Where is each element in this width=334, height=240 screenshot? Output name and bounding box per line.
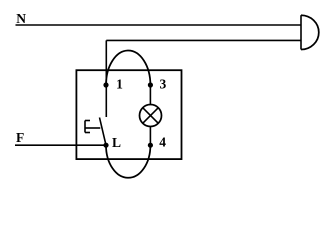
svg-text:N: N bbox=[16, 11, 26, 26]
wire lamp to terminal 4 bbox=[149, 127, 151, 146]
box connection unit bbox=[76, 70, 181, 159]
wire N line bbox=[16, 24, 302, 26]
svg-text:4: 4 bbox=[159, 135, 166, 150]
lamp X1 bbox=[140, 105, 162, 127]
terminal 4 bbox=[148, 143, 153, 148]
svg-text:1: 1 bbox=[116, 77, 123, 92]
switch S1 fixed contact bbox=[85, 121, 100, 133]
wire lamp-holder return line bbox=[106, 39, 301, 41]
svg-text:L: L bbox=[112, 135, 121, 150]
wire terminal 3 to lamp bbox=[149, 85, 151, 105]
wire vertical from return line to terminal 1 and switch contact bbox=[105, 40, 107, 117]
switch S1 lever bbox=[100, 118, 107, 146]
wire arc terminal L to terminal 4 bbox=[106, 145, 150, 178]
svg-text:3: 3 bbox=[160, 77, 167, 92]
terminal L bbox=[103, 143, 108, 148]
terminal 1 bbox=[103, 82, 108, 87]
terminal 3 bbox=[148, 82, 153, 87]
svg-text:F: F bbox=[16, 130, 24, 145]
wire F line to terminal L bbox=[15, 144, 106, 146]
lamp holder E27 bbox=[301, 15, 319, 49]
wire arc terminal 1 to terminal 3 bbox=[106, 51, 150, 85]
